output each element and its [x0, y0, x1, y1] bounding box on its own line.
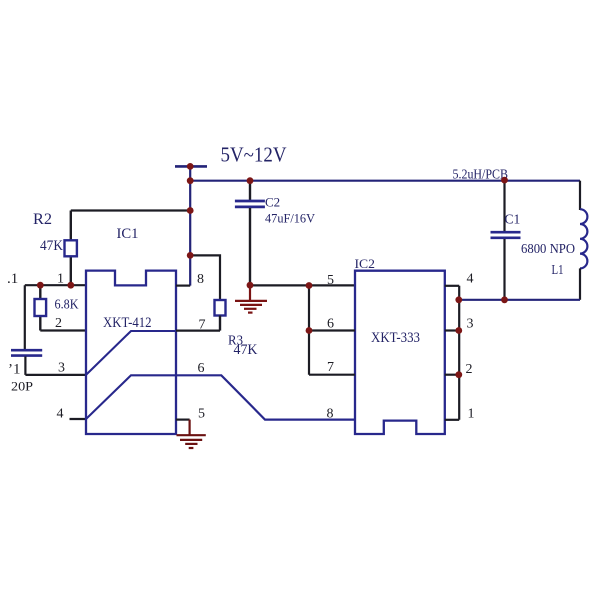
svg-text:8: 8	[327, 406, 334, 421]
svg-text:R2: R2	[33, 211, 52, 228]
wire pin6 diagonal to IC2 pin8	[176, 375, 355, 419]
svg-text:2: 2	[55, 316, 62, 331]
svg-text:IC1: IC1	[117, 226, 139, 242]
wire pin4 stub	[70, 418, 87, 420]
svg-text:5.2uH/PCB: 5.2uH/PCB	[453, 166, 509, 181]
capacitor C2 lead bottom	[249, 208, 251, 285]
capacitor C2 lead top	[249, 181, 251, 200]
capacitor C2 plates	[235, 201, 265, 207]
svg-text:6: 6	[198, 361, 205, 376]
svg-text:C2: C2	[265, 195, 280, 210]
resistor R3	[215, 300, 226, 316]
inductor L1	[580, 209, 587, 268]
wire pin1 row	[25, 284, 86, 286]
ground under C2	[235, 285, 267, 312]
svg-text:7: 7	[327, 360, 334, 375]
junction node dots	[37, 163, 508, 378]
svg-text:5: 5	[327, 273, 334, 288]
svg-text:20P: 20P	[11, 378, 33, 393]
capacitor C1 plates	[491, 232, 521, 238]
wire pin5 stub	[176, 419, 190, 421]
svg-text:1: 1	[57, 271, 64, 286]
wire IC2 pin2 stub	[445, 374, 459, 376]
wire vertical from power bar down to pin8 row	[189, 166, 191, 285]
svg-text:IC2: IC2	[355, 256, 376, 271]
capacitor C1 lead bottom	[503, 239, 505, 300]
svg-text:2: 2	[466, 362, 473, 377]
svg-text:8: 8	[197, 272, 204, 287]
svg-text:6: 6	[327, 316, 334, 331]
wire bottom horizontal L1 to pin4 chain	[459, 299, 581, 301]
wire IC2 right vertical chain	[458, 286, 460, 420]
svg-text:5: 5	[198, 407, 205, 422]
svg-text:C1: C1	[505, 211, 521, 226]
wire IC2 pin3 stub	[445, 329, 459, 331]
svg-text:4: 4	[57, 406, 64, 421]
wire R3 tap from rail vertical	[190, 255, 220, 300]
svg-text:6800 NPO: 6800 NPO	[521, 241, 575, 256]
svg-text:XKT-333: XKT-333	[371, 330, 420, 346]
svg-text:’1: ’1	[8, 361, 21, 377]
wire C2 bottom to IC2 pin5	[250, 284, 355, 286]
svg-text:5V~12V: 5V~12V	[221, 143, 287, 167]
wire IC2 left vertical chain	[308, 285, 310, 374]
svg-text:47uF/16V: 47uF/16V	[265, 210, 316, 225]
svg-text:7: 7	[199, 318, 206, 333]
svg-text:3: 3	[58, 361, 65, 376]
capacitor 20P bottom lead	[24, 357, 26, 375]
capacitor 20P plates	[11, 350, 42, 355]
ground under pin5	[177, 420, 206, 448]
svg-text:3: 3	[467, 316, 474, 331]
wire pin2 row	[40, 329, 86, 331]
resistor R2	[65, 240, 77, 256]
svg-text:6.8K: 6.8K	[55, 297, 79, 312]
wire IC2 pin7 stub	[309, 374, 355, 376]
wire power rail	[190, 180, 580, 182]
capacitor C1 lead top	[503, 181, 505, 231]
power supply bar symbol	[175, 165, 207, 168]
svg-text:.1: .1	[7, 271, 18, 287]
svg-text:47K: 47K	[234, 342, 258, 358]
IC1 internal wire pin3 to pin7	[86, 331, 176, 375]
op-amp IC2 XKT-333 box	[355, 271, 445, 434]
IC1 internal wire pin4 to pin6	[86, 375, 176, 419]
wire IC2 pin6 stub	[309, 329, 355, 331]
resistor R3 bottom lead	[219, 316, 221, 331]
wire IC2 pin4 stub	[445, 285, 459, 287]
svg-text:1: 1	[468, 407, 475, 422]
wire pin7 row	[176, 330, 220, 332]
wire L1 bottom vertical	[579, 268, 581, 299]
resistor R2 top wire	[71, 209, 190, 211]
wire rail corner down to L1 top	[579, 181, 581, 210]
op-amp IC1 XKT-412 box	[86, 271, 176, 434]
svg-text:L1: L1	[552, 262, 564, 277]
svg-text:4: 4	[467, 272, 474, 287]
svg-text:47K: 47K	[40, 238, 63, 254]
wire pin8 stub	[176, 285, 190, 287]
resistor R2 leads	[70, 211, 72, 286]
wire pin3 row	[25, 374, 86, 376]
resistor 6.8K leads	[39, 285, 41, 330]
resistor 6.8K	[35, 299, 47, 316]
svg-text:XKT-412: XKT-412	[103, 315, 152, 331]
wire pin1 corner down to 20P cap	[24, 285, 26, 349]
wire IC2 pin1 stub	[445, 419, 459, 421]
